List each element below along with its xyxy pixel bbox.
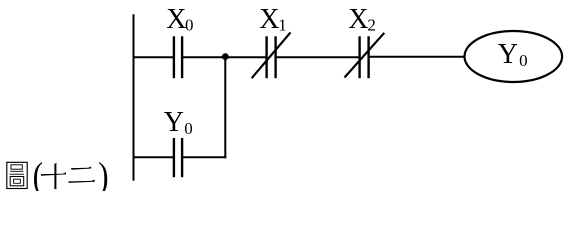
junction node	[222, 53, 229, 60]
wire rail to X0	[133, 56, 174, 58]
svg-text:Y: Y	[164, 107, 184, 138]
branch vertical wire from junction	[224, 57, 226, 159]
wire X2 to coil	[369, 56, 465, 58]
svg-text:1: 1	[278, 16, 287, 35]
caption glyph 圖 (drawn)	[7, 162, 27, 188]
contact Y0	[174, 138, 182, 177]
contact X2 (NC)	[345, 33, 385, 78]
svg-text:0: 0	[185, 16, 194, 35]
contact X0	[174, 36, 182, 78]
caption glyph 十 (drawn)	[41, 163, 66, 189]
caption glyph 二 (drawn)	[69, 167, 95, 183]
bottom rung wire Y0 contact to branch	[183, 156, 227, 158]
svg-text:(: (	[33, 154, 43, 191]
left power rail	[133, 14, 135, 180]
contact X1 (NC)	[252, 32, 291, 78]
svg-text:): )	[98, 154, 108, 191]
svg-text:0: 0	[519, 51, 528, 70]
svg-text:X: X	[348, 4, 368, 35]
svg-text:Y: Y	[498, 39, 518, 70]
svg-text:0: 0	[184, 119, 193, 138]
coil Y0 (ellipse)	[465, 31, 563, 82]
bottom rung wire rail to Y0 contact	[133, 156, 174, 158]
svg-text:2: 2	[367, 16, 376, 35]
wire X0 to X1 through junction	[183, 56, 267, 58]
svg-text:X: X	[166, 4, 186, 35]
svg-text:X: X	[259, 4, 279, 35]
wire X1 to X2	[276, 56, 360, 58]
